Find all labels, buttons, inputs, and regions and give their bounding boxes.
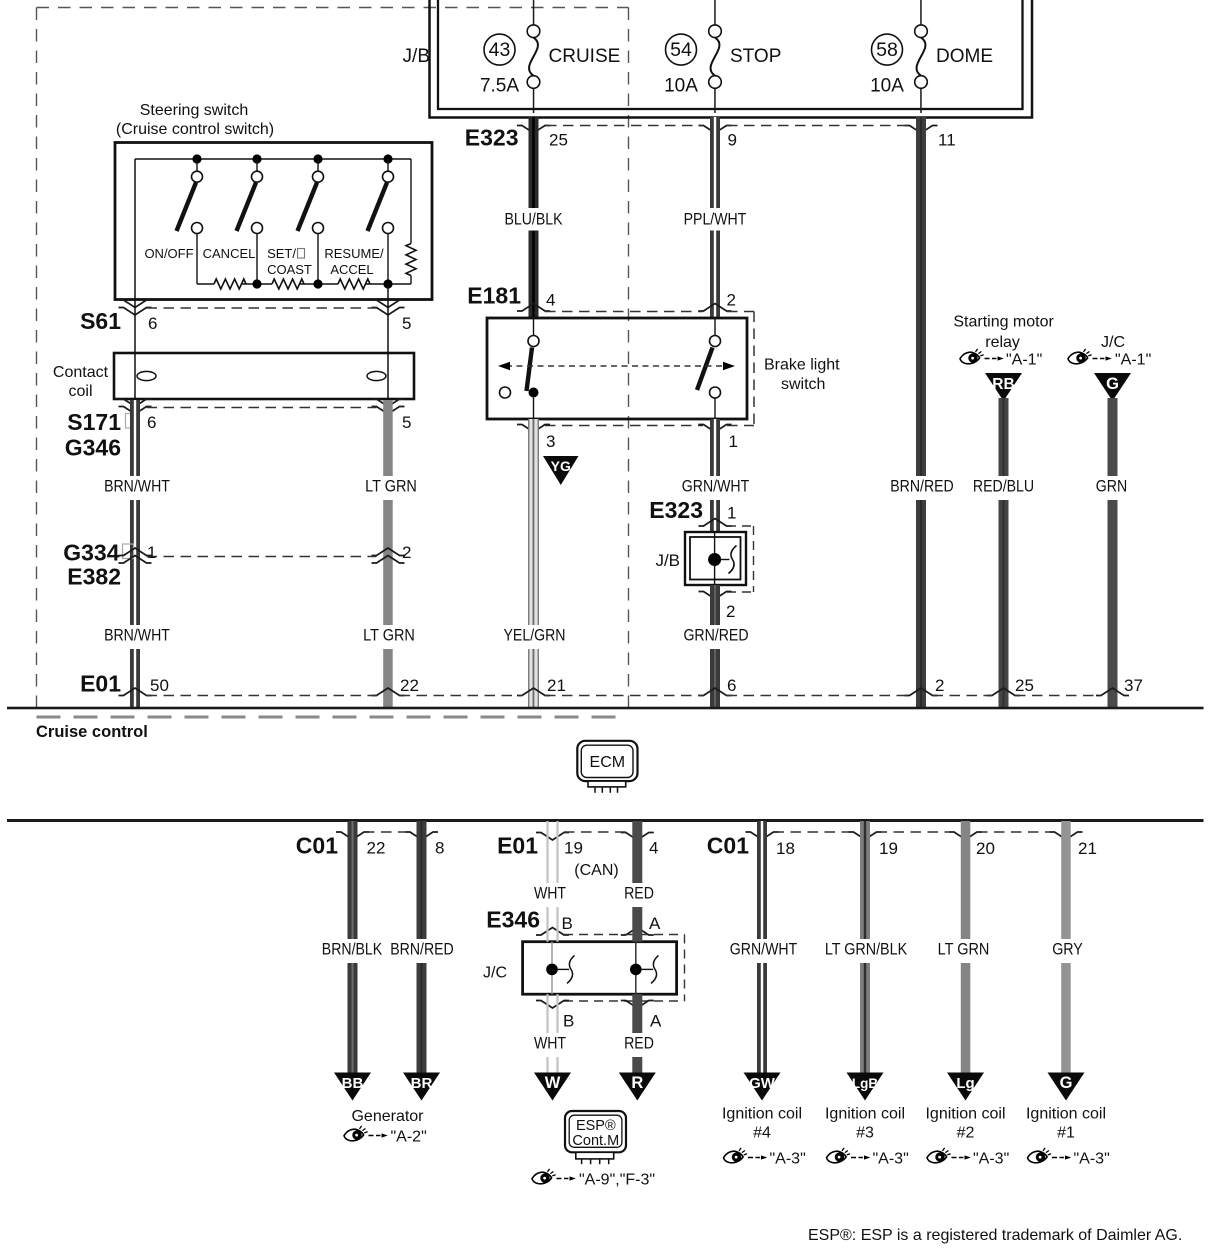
- svg-text:58: 58: [876, 39, 898, 61]
- svg-text:BB: BB: [342, 1075, 364, 1092]
- svg-text:18: 18: [776, 839, 795, 858]
- svg-text:6: 6: [147, 413, 156, 432]
- svg-text:Cont.M: Cont.M: [572, 1133, 619, 1149]
- svg-text:21: 21: [547, 676, 566, 695]
- svg-text:#3: #3: [856, 1125, 874, 1142]
- svg-text:S61: S61: [80, 308, 121, 334]
- svg-text:7.5A: 7.5A: [480, 76, 519, 97]
- svg-text:E323: E323: [649, 497, 703, 523]
- svg-text:Ignition coil: Ignition coil: [825, 1106, 905, 1123]
- svg-text:1: 1: [729, 432, 738, 451]
- svg-text:GRN/WHT: GRN/WHT: [730, 940, 797, 959]
- svg-text:Starting motor: Starting motor: [953, 314, 1054, 331]
- svg-text:A: A: [650, 1012, 662, 1031]
- svg-text:BRN/BLK: BRN/BLK: [322, 940, 382, 959]
- svg-text:#1: #1: [1057, 1125, 1075, 1142]
- svg-text:E382: E382: [67, 564, 121, 590]
- svg-text:E01: E01: [497, 833, 538, 859]
- svg-text:19: 19: [879, 839, 898, 858]
- svg-text:6: 6: [148, 314, 157, 333]
- svg-text:2: 2: [727, 291, 736, 310]
- svg-text:Cruise control: Cruise control: [36, 723, 148, 741]
- svg-text:G: G: [1106, 375, 1119, 393]
- svg-text:YEL/GRN: YEL/GRN: [504, 626, 566, 645]
- svg-text:10A: 10A: [870, 76, 904, 97]
- svg-text:2: 2: [726, 602, 735, 621]
- svg-text:RED: RED: [624, 1034, 654, 1053]
- svg-text:B: B: [562, 914, 573, 933]
- svg-text:6: 6: [727, 676, 736, 695]
- svg-text:GRY: GRY: [1052, 940, 1083, 959]
- svg-text:Contact: Contact: [53, 364, 109, 381]
- svg-text:43: 43: [489, 39, 511, 61]
- svg-text:Generator: Generator: [351, 1108, 424, 1125]
- svg-text:E01: E01: [80, 671, 121, 697]
- svg-text:RESUME/: RESUME/: [324, 246, 384, 261]
- svg-text:11: 11: [938, 131, 956, 150]
- svg-text:E181: E181: [467, 283, 521, 309]
- svg-text:A: A: [649, 914, 661, 933]
- svg-text:"A-3": "A-3": [973, 1151, 1009, 1168]
- svg-text:ECM: ECM: [590, 754, 626, 771]
- svg-text:"A-3": "A-3": [1074, 1151, 1110, 1168]
- svg-text:G334: G334: [63, 540, 119, 566]
- svg-text:C01: C01: [707, 833, 749, 859]
- svg-text:R: R: [631, 1074, 643, 1092]
- svg-text:CANCEL: CANCEL: [203, 246, 256, 261]
- svg-text:G346: G346: [65, 435, 121, 461]
- svg-text:#4: #4: [753, 1125, 771, 1142]
- svg-text:"A-2": "A-2": [391, 1129, 427, 1146]
- svg-text:BRN/WHT: BRN/WHT: [104, 626, 170, 645]
- svg-text:LT GRN/BLK: LT GRN/BLK: [825, 940, 907, 959]
- svg-text:ESP®: ESP is a registered trad: ESP®: ESP is a registered trademark of D…: [808, 1227, 1182, 1244]
- svg-text:20: 20: [976, 839, 995, 858]
- svg-text:RB: RB: [992, 376, 1014, 393]
- svg-text:GRN: GRN: [1096, 477, 1127, 496]
- svg-text:"A-1": "A-1": [1006, 352, 1042, 369]
- svg-text:5: 5: [402, 314, 411, 333]
- svg-text:19: 19: [564, 839, 583, 858]
- svg-text:2: 2: [935, 676, 944, 695]
- svg-text:G: G: [1060, 1074, 1073, 1092]
- svg-text:37: 37: [1124, 676, 1143, 695]
- svg-text:4: 4: [546, 291, 555, 310]
- svg-text:10A: 10A: [664, 76, 698, 97]
- svg-text:YG: YG: [551, 458, 571, 474]
- svg-text:WHT: WHT: [534, 884, 566, 903]
- svg-text:switch: switch: [781, 376, 825, 393]
- svg-text:#2: #2: [957, 1125, 975, 1142]
- svg-text:LT GRN: LT GRN: [363, 626, 415, 645]
- svg-text:Brake light: Brake light: [764, 357, 840, 374]
- svg-text:C01: C01: [296, 833, 338, 859]
- svg-text:ESP®: ESP®: [576, 1118, 616, 1134]
- svg-text:1: 1: [147, 543, 156, 562]
- svg-text:21: 21: [1078, 839, 1097, 858]
- svg-text:Lg: Lg: [956, 1075, 974, 1092]
- svg-text:9: 9: [728, 131, 737, 150]
- svg-text:50: 50: [150, 676, 169, 695]
- svg-text:Ignition coil: Ignition coil: [925, 1106, 1005, 1123]
- svg-text:BRN/RED: BRN/RED: [890, 477, 954, 496]
- svg-text:BR: BR: [411, 1075, 433, 1092]
- svg-text:B: B: [563, 1012, 574, 1031]
- svg-text:22: 22: [367, 839, 386, 858]
- svg-text:BRN/RED: BRN/RED: [390, 940, 454, 959]
- svg-text:PPL/WHT: PPL/WHT: [684, 210, 747, 229]
- svg-text:J/C: J/C: [1101, 334, 1125, 351]
- svg-text:GRN/WHT: GRN/WHT: [682, 477, 749, 496]
- svg-text:2: 2: [402, 543, 411, 562]
- svg-text:"A-1": "A-1": [1115, 352, 1151, 369]
- svg-text:4: 4: [649, 839, 658, 858]
- svg-text:"A-3": "A-3": [770, 1151, 806, 1168]
- svg-text:25: 25: [1015, 676, 1034, 695]
- svg-text:COAST: COAST: [267, 262, 312, 277]
- svg-text:Ignition coil: Ignition coil: [1026, 1106, 1106, 1123]
- svg-text:LT GRN: LT GRN: [365, 477, 417, 496]
- svg-text:"A-9","F-3": "A-9","F-3": [579, 1172, 655, 1189]
- svg-text:8: 8: [435, 839, 444, 858]
- svg-text:5: 5: [402, 413, 411, 432]
- svg-text:relay: relay: [985, 334, 1020, 351]
- svg-text:E323: E323: [465, 125, 519, 151]
- svg-text:W: W: [545, 1074, 561, 1092]
- svg-text:22: 22: [400, 676, 419, 695]
- svg-text:GRN/RED: GRN/RED: [683, 626, 748, 645]
- svg-text:E346: E346: [486, 907, 540, 933]
- svg-text:coil: coil: [68, 383, 92, 400]
- svg-text:LgB: LgB: [852, 1076, 878, 1091]
- svg-text:S171: S171: [67, 409, 121, 435]
- svg-text:GW: GW: [749, 1075, 776, 1092]
- svg-text:ON/OFF: ON/OFF: [144, 246, 193, 261]
- svg-text:"A-3": "A-3": [873, 1151, 909, 1168]
- svg-text:(CAN): (CAN): [574, 862, 618, 879]
- svg-text:ACCEL: ACCEL: [330, 262, 373, 277]
- svg-text:STOP: STOP: [730, 46, 781, 67]
- svg-text:SET/: SET/: [267, 246, 296, 261]
- svg-text:LT GRN: LT GRN: [938, 940, 990, 959]
- svg-text:BLU/BLK: BLU/BLK: [505, 210, 563, 229]
- svg-text:CRUISE: CRUISE: [549, 46, 621, 67]
- svg-text:(Cruise control switch): (Cruise control switch): [116, 121, 274, 138]
- svg-text:BRN/WHT: BRN/WHT: [104, 477, 170, 496]
- svg-text:25: 25: [549, 131, 568, 150]
- svg-text:Steering switch: Steering switch: [140, 102, 249, 119]
- svg-text:54: 54: [670, 39, 692, 61]
- svg-text:DOME: DOME: [936, 46, 993, 67]
- svg-text:Ignition coil: Ignition coil: [722, 1106, 802, 1123]
- svg-text:3: 3: [546, 432, 555, 451]
- svg-text:1: 1: [727, 504, 736, 523]
- svg-text:J/C: J/C: [483, 965, 507, 982]
- svg-text:J/B: J/B: [403, 46, 430, 67]
- svg-text:RED/BLU: RED/BLU: [973, 477, 1034, 496]
- svg-text:J/B: J/B: [655, 551, 680, 570]
- svg-text:RED: RED: [624, 884, 654, 903]
- svg-text:WHT: WHT: [534, 1034, 566, 1053]
